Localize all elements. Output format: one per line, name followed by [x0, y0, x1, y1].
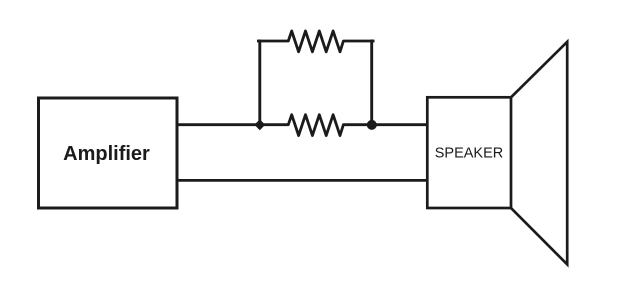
svg-text:SPEAKER: SPEAKER — [435, 146, 504, 162]
node right junction — [367, 120, 377, 130]
wire bottom: amplifier to speaker — [177, 179, 427, 182]
wire: left branch riser — [258, 41, 261, 125]
speaker box — [427, 97, 511, 208]
node left junction — [254, 119, 265, 130]
wire top: amplifier to left junction — [177, 123, 260, 126]
amplifier box — [39, 98, 178, 208]
resistor R2 (lower, in series) — [260, 115, 372, 136]
svg-text:Amplifier: Amplifier — [63, 143, 150, 165]
speaker cone — [511, 42, 567, 265]
resistor R1 (upper, parallel branch) — [258, 31, 373, 52]
wire: right branch riser — [370, 41, 373, 125]
wire: right junction to speaker — [372, 123, 427, 126]
